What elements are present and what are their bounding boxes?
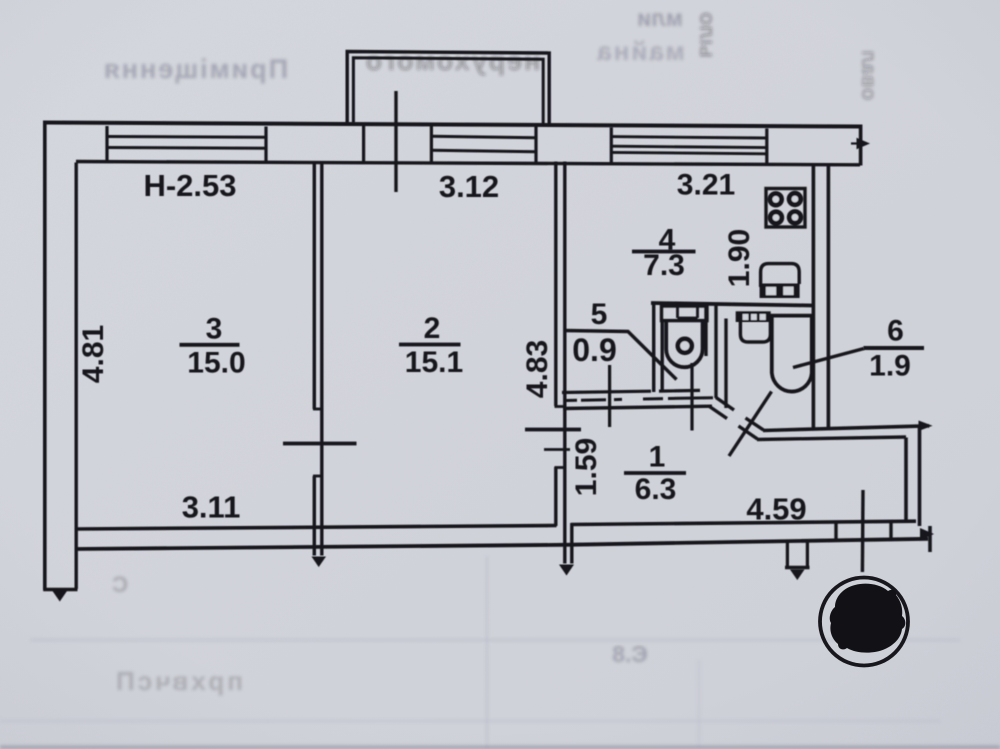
window W3 mullion 2 [611, 146, 767, 147]
stamp ink blob [830, 584, 906, 653]
wall rooms 3/2 left line upper [313, 162, 316, 409]
arrow: stub rooms 3/2 [312, 557, 327, 568]
svg-text:7.3: 7.3 [643, 249, 685, 282]
balcony window right jamb [534, 127, 537, 164]
svg-text:ыло: ыло [695, 12, 720, 58]
svg-text:С: С [112, 572, 128, 597]
door cross line room2/hall [525, 428, 581, 432]
wall stub below rooms 3/2 wall [314, 528, 322, 556]
wall: room5/WC bottom row A [562, 390, 700, 392]
arrow: left wall bottom [53, 591, 68, 602]
svg-text:3.12: 3.12 [439, 169, 499, 204]
wall: alcove right exterior vertical [920, 426, 931, 552]
wall: top interior [76, 162, 860, 165]
labels layer [77, 168, 924, 527]
stove burner 1 [768, 191, 784, 207]
svg-text:овал: овал [857, 50, 880, 100]
wall room2/hall right line [563, 162, 566, 527]
svg-text:15.0: 15.0 [187, 347, 245, 380]
svg-text:майна: майна [595, 36, 685, 66]
svg-text:6.3: 6.3 [635, 473, 677, 506]
balcony window mullion 1 [431, 136, 536, 138]
toilet tank [662, 306, 708, 321]
window W1 mullion 1 [107, 135, 266, 139]
wall: top-right corner vertical [859, 125, 863, 166]
stove burner 2 [787, 191, 803, 207]
balcony inner outline [353, 58, 543, 125]
balcony pier jamb [362, 124, 365, 163]
bleed crease vertical line [486, 556, 488, 749]
wall: WC left [652, 304, 655, 393]
svg-text:4.81: 4.81 [77, 325, 110, 383]
wall: room5/WC bottom row B dashes [566, 398, 713, 401]
kitchen unit base white square 2 [783, 287, 793, 295]
door jamb tick lower room2/hall [555, 466, 567, 469]
stove burner hole 1 [772, 196, 779, 203]
wall room2/hall left line lower [554, 467, 557, 526]
washbasin teeth band [736, 311, 771, 322]
wall connector pier 1 [834, 523, 837, 542]
wall: kitchen right exterior [827, 164, 831, 428]
wall: top exterior [43, 123, 862, 127]
svg-text:1: 1 [649, 441, 666, 474]
svg-text:3: 3 [206, 313, 223, 346]
arrow: stub room2/hall [559, 565, 574, 576]
wall: WC/bath left line [714, 305, 717, 399]
toilet bowl [666, 321, 702, 368]
door tick WC [690, 363, 693, 431]
svg-text:Приміщення: Приміщення [102, 54, 288, 84]
balcony window left jamb [430, 125, 433, 163]
stove burner 4 [787, 209, 803, 225]
toilet side line right [704, 306, 707, 357]
svg-text:2: 2 [424, 312, 441, 345]
room 6 fraction line [864, 346, 925, 350]
door tick room5 [608, 365, 611, 427]
stove burner hole 3 [773, 214, 780, 221]
dimension tick 4.59 right [861, 490, 865, 572]
svg-text:3.21: 3.21 [677, 169, 735, 202]
wall: room5 top and door leaf [564, 331, 677, 380]
stove [766, 189, 805, 228]
svg-text:Н-2.53: Н-2.53 [143, 168, 236, 203]
wall: left bottom cap [43, 588, 77, 591]
window W3 right jamb [765, 129, 768, 165]
svg-text:3.11: 3.11 [182, 490, 241, 525]
kitchen unit base band [760, 284, 800, 299]
entrance stub walls [787, 543, 807, 568]
svg-text:6: 6 [887, 315, 904, 348]
entrance stub cap [785, 566, 810, 569]
washbasin tooth white 2 [751, 314, 757, 320]
wall: bottom exterior left segment [76, 545, 565, 549]
wall: kitchen right interior [812, 164, 816, 430]
wall: bath block top [651, 303, 814, 306]
svg-text:1.9: 1.9 [869, 350, 911, 383]
arrow head: top wall right end [857, 138, 871, 149]
balcony outer outline [347, 52, 549, 125]
wall: left exterior [43, 121, 47, 590]
room 1 fraction line [624, 471, 686, 475]
door cross line rooms 3/2 [283, 442, 357, 446]
photo bottom edge dark band [0, 746, 1000, 749]
diagonal wall upper line [716, 398, 764, 431]
diagonal wall lower line [710, 407, 758, 440]
svg-text:1.90: 1.90 [723, 229, 756, 287]
dimension tick 1.59 [544, 448, 570, 451]
room 3 fraction line [180, 343, 240, 347]
window W3 left jamb [610, 128, 613, 164]
stove burner hole 4 [792, 214, 799, 221]
stove burner hole 2 [792, 196, 799, 203]
svg-text:прхвчсП: прхвчсП [113, 666, 243, 696]
bleed faint vertical right [698, 660, 700, 749]
arrow head: hall bottom exterior right end [920, 528, 934, 540]
kitchen unit rounded top [761, 264, 800, 287]
stamp layer [820, 578, 908, 666]
toilet side line left [661, 321, 664, 391]
ink drawing layer [43, 52, 934, 602]
wall: bottom interior left segment [76, 526, 557, 530]
arrow: top wall right end [851, 142, 864, 144]
kitchen unit base white square 1 [766, 287, 776, 295]
svg-text:Є.8: Є.8 [612, 641, 648, 667]
washbasin tooth white 1 [743, 314, 749, 320]
window W1 right jamb [264, 127, 267, 163]
bleed table line bottom 1 [30, 639, 960, 642]
arrow head: alcove top right end [919, 421, 933, 432]
toilet tank inner notch [678, 306, 698, 318]
window W1 mullion 2 [107, 146, 266, 150]
svg-text:0.9: 0.9 [572, 332, 616, 368]
wall: bath bottom upper / alcove top [763, 426, 929, 431]
balcony window mullion 2 [431, 150, 536, 152]
svg-text:15.1: 15.1 [405, 346, 463, 379]
toilet flush circle [678, 339, 692, 353]
washbasin body [740, 322, 770, 342]
door jamb tick upper rooms 3/2 [313, 408, 323, 411]
wall: alcove right interior vertical [904, 438, 908, 522]
wall: WC/bath right line [724, 319, 727, 409]
room 4 fraction line [632, 250, 696, 254]
wall stub below room2/hall wall [565, 523, 572, 564]
bleed table line bottom 2 [0, 720, 940, 722]
wall connector pier 2 [889, 522, 892, 541]
room 2 fraction line [399, 343, 461, 347]
stamp circle outline [820, 578, 908, 666]
window W3 mullion 3 [611, 152, 767, 153]
svg-text:4.83: 4.83 [521, 340, 554, 398]
wall: room5/WC bottom row C [563, 406, 712, 408]
svg-text:мли: мли [637, 5, 683, 31]
window W1 left jamb [105, 126, 108, 162]
bathtub [772, 316, 812, 392]
wall: hall bottom interior [571, 521, 916, 524]
svg-text:1.59: 1.59 [570, 438, 603, 496]
balcony door tick [394, 91, 397, 192]
wall: bath bottom lower [757, 437, 906, 440]
door jamb tick upper room2/hall [555, 405, 567, 408]
door jamb tick lower rooms 3/2 [313, 475, 323, 478]
svg-text:5: 5 [591, 298, 608, 331]
wall rooms 3/2 left line lower [313, 476, 316, 529]
wall rooms 3/2 right line [320, 162, 323, 529]
stove burner 3 [768, 209, 784, 225]
window W3 mullion 1 [611, 137, 767, 138]
wall room2/hall left line upper [554, 162, 557, 407]
washbasin tooth white 3 [760, 314, 766, 320]
door cross line bath [729, 392, 772, 457]
wall: left interior [74, 163, 77, 590]
arrow: entrance stub [790, 570, 805, 581]
leader line label 6 [793, 349, 864, 368]
svg-text:4.59: 4.59 [746, 492, 806, 527]
wall: hall bottom exterior [565, 539, 928, 545]
